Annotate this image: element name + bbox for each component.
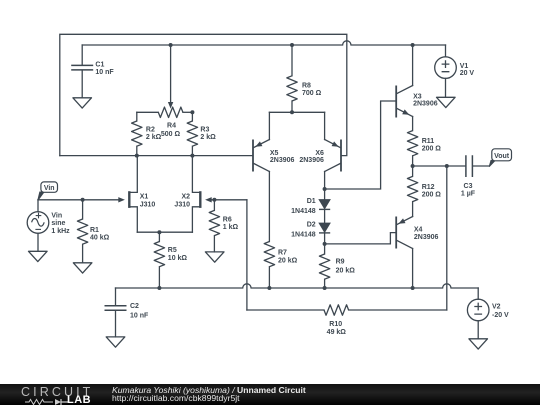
svg-text:1N4148: 1N4148	[291, 208, 316, 215]
node R9 bottom junction	[323, 286, 327, 290]
svg-text:R12: R12	[422, 184, 435, 191]
label X3	[413, 93, 438, 107]
wire X3 collector from rail	[412, 45, 414, 86]
resistor R4 potentiometer body	[137, 107, 193, 117]
svg-text:1 kHz: 1 kHz	[51, 228, 70, 235]
wire X6 collector down	[324, 172, 326, 190]
capacitor C2	[105, 306, 127, 337]
voltage source Vin sine	[27, 212, 49, 234]
svg-text:sine: sine	[51, 220, 65, 227]
wire bottom rail left end down to C2	[115, 288, 117, 305]
wire feedback loop left frame and top run (X6 base net)	[60, 34, 347, 155]
node R5 bottom junction	[157, 286, 161, 290]
wire feedback right column through hop	[446, 166, 448, 310]
wire V1 top	[445, 45, 447, 57]
node R8 bottom junction	[290, 110, 294, 114]
resistor R6	[209, 200, 219, 252]
resistor R1	[77, 200, 87, 263]
transistor X1 J310	[118, 156, 137, 233]
wire R10 left lead	[247, 309, 324, 311]
svg-text:R8: R8	[302, 83, 311, 90]
wire bottom rail right end to V2	[477, 288, 479, 299]
transistor X4 2N3906	[396, 217, 412, 249]
node X4 collector bottom junction	[411, 286, 415, 290]
svg-text:R7: R7	[278, 249, 287, 256]
svg-text:R1: R1	[90, 227, 99, 234]
svg-text:X1: X1	[140, 194, 149, 201]
node R5 top junction	[157, 230, 161, 234]
svg-text:X5: X5	[270, 150, 279, 157]
wire +20V rail from C1 to V1 with crossover hop	[82, 41, 445, 45]
svg-text:R9: R9	[336, 259, 345, 266]
label R12	[422, 184, 442, 198]
ground below V2	[469, 339, 488, 349]
node R2 bottom / X1 drain junction	[135, 154, 139, 158]
svg-text:R10: R10	[329, 321, 342, 328]
svg-text:R11: R11	[422, 138, 435, 145]
svg-text:Vin: Vin	[44, 185, 55, 192]
wire bottom rail with two crossover hops	[116, 284, 479, 288]
svg-text:D1: D1	[307, 198, 316, 205]
svg-text:X3: X3	[413, 93, 422, 100]
svg-text:R6: R6	[223, 217, 232, 224]
svg-text:200 Ω: 200 Ω	[422, 191, 442, 198]
node R7 bottom junction	[267, 286, 271, 290]
svg-text:20 kΩ: 20 kΩ	[336, 268, 356, 275]
transistor X2 J310	[192, 156, 211, 233]
svg-text:2N3906: 2N3906	[270, 157, 295, 164]
svg-text:2 kΩ: 2 kΩ	[146, 134, 162, 141]
ground below C2	[106, 337, 125, 347]
svg-text:R3: R3	[200, 127, 209, 134]
resistor R12	[407, 166, 417, 217]
label Vin source	[51, 212, 70, 235]
svg-text:X6: X6	[315, 150, 324, 157]
label X1	[140, 194, 156, 209]
label D1	[291, 198, 316, 215]
node D2 cathode / R9 / X4 base junction	[323, 242, 327, 246]
svg-text:J310: J310	[174, 202, 190, 209]
svg-text:Vout: Vout	[494, 153, 510, 160]
resistor R5	[154, 232, 164, 288]
svg-text:1 µF: 1 µF	[461, 191, 476, 198]
svg-text:10 kΩ: 10 kΩ	[168, 255, 188, 262]
voltage source V1	[435, 57, 457, 79]
resistor R8	[287, 45, 297, 112]
wire output node to C3	[413, 165, 466, 167]
label V1	[460, 63, 475, 77]
ground below R6	[205, 252, 224, 262]
label R8	[302, 83, 322, 97]
svg-text:20 kΩ: 20 kΩ	[278, 258, 298, 265]
node R11/R12/output junction	[411, 164, 415, 168]
label C3	[461, 183, 476, 198]
label R3	[200, 127, 216, 141]
label R2	[146, 127, 162, 141]
label V2	[492, 303, 509, 319]
label R5	[168, 247, 188, 262]
node X6 collector / D1 anode / X3 base junction	[323, 187, 327, 191]
label R10	[327, 321, 347, 336]
diode D2 1N4148	[319, 223, 330, 233]
resistor R9	[319, 244, 329, 288]
ground below Vin source	[29, 251, 48, 261]
label R1	[90, 227, 110, 242]
svg-text:C2: C2	[130, 303, 139, 310]
node R3 bottom / X2 drain junction	[190, 154, 194, 158]
svg-text:1N4148: 1N4148	[291, 232, 316, 239]
ground below R1	[73, 263, 92, 273]
wire between D1 and D2	[324, 209, 326, 223]
resistor R11	[407, 131, 417, 166]
label X4	[414, 226, 439, 241]
label C2	[130, 303, 149, 319]
label R9	[336, 259, 356, 275]
label X6	[299, 150, 324, 164]
wire V1 bottom	[445, 78, 447, 97]
wire D1 anode	[324, 189, 326, 200]
ground below V1	[437, 97, 456, 107]
node +20V rail / R4 wiper junction	[169, 43, 173, 47]
node +20V rail / X3 collector junction	[411, 43, 415, 47]
label C1 value	[95, 61, 114, 76]
transistor X5 2N3906	[253, 112, 269, 171]
CircuitLab logo	[21, 385, 113, 405]
wire X3 base route to D1 junction	[325, 101, 397, 189]
wire X4 collector down to bottom rail	[412, 249, 414, 289]
svg-text:40 kΩ: 40 kΩ	[90, 235, 110, 242]
wire Vin node	[38, 199, 119, 201]
wire X4 base jog to D2 junction	[325, 233, 397, 244]
svg-text:X4: X4	[414, 226, 423, 233]
wire X5 collector to R7	[268, 172, 270, 242]
svg-text:49 kΩ: 49 kΩ	[327, 329, 347, 336]
ground below C1	[73, 98, 92, 108]
wire feedback left column through hop	[246, 200, 248, 310]
svg-text:J310: J310	[140, 202, 156, 209]
svg-text:Vin: Vin	[51, 212, 62, 219]
svg-text:X2: X2	[181, 194, 190, 201]
svg-text:700 Ω: 700 Ω	[302, 90, 322, 97]
wire Vin source top	[37, 200, 39, 212]
resistor R2	[132, 112, 142, 155]
label D2	[291, 222, 316, 239]
wire diff pair emitter top bus	[269, 111, 324, 113]
node Vin / R1 junction	[81, 198, 85, 202]
svg-text:1 kΩ: 1 kΩ	[223, 224, 239, 231]
wire D2 cathode to base junction	[324, 233, 326, 244]
wire JFET source bus	[137, 231, 192, 233]
svg-text:2 kΩ: 2 kΩ	[200, 134, 216, 141]
wire base bus y=156 from frame to X5 base	[60, 155, 252, 157]
arrow R4 wiper	[168, 102, 173, 109]
svg-text:C3: C3	[464, 183, 473, 190]
svg-text:200 Ω: 200 Ω	[422, 145, 442, 152]
svg-text:D2: D2	[307, 222, 316, 229]
node +20V rail / R8 junction	[290, 43, 294, 47]
label R4	[161, 122, 181, 138]
resistor R10	[324, 305, 447, 315]
wire R4 wiper from +20V rail	[170, 45, 172, 103]
resistor R7	[264, 242, 274, 289]
capacitor C3	[466, 155, 489, 177]
wire X3 emitter to R11	[412, 117, 414, 131]
node X2 gate / R6 junction	[212, 198, 216, 202]
wire X2 gate to R6 and feedback column	[210, 199, 247, 201]
svg-text:-20 V: -20 V	[492, 312, 509, 319]
svg-text:R4: R4	[167, 122, 176, 129]
label R11	[422, 138, 442, 152]
wire V2 bottom	[477, 321, 479, 339]
svg-text:10 nF: 10 nF	[130, 312, 149, 319]
label R6	[223, 217, 239, 232]
transistor X6 2N3906	[325, 112, 341, 171]
capacitor C1	[71, 45, 93, 98]
label R7	[278, 249, 298, 264]
transistor X3 2N3906	[396, 86, 412, 118]
label X5	[270, 150, 295, 164]
svg-text:R2: R2	[146, 127, 155, 134]
svg-text:2N3906: 2N3906	[299, 157, 324, 164]
svg-text:20 V: 20 V	[460, 70, 475, 77]
svg-text:R5: R5	[168, 247, 177, 254]
label X2	[174, 194, 190, 209]
svg-text:C1: C1	[95, 61, 104, 68]
diode D1 1N4148	[319, 200, 330, 210]
svg-text:500 Ω: 500 Ω	[161, 131, 181, 138]
svg-text:V2: V2	[492, 303, 501, 310]
flag Vin	[38, 182, 58, 201]
node R4 right terminal / R3 top	[190, 110, 194, 114]
svg-text:10 nF: 10 nF	[95, 69, 114, 76]
flag Vout	[489, 149, 511, 167]
svg-text:2N3906: 2N3906	[414, 234, 439, 241]
node feedback takeoff junction	[445, 164, 449, 168]
resistor R3	[187, 112, 197, 155]
svg-text:2N3906: 2N3906	[413, 101, 438, 108]
voltage source V2	[467, 299, 489, 321]
wire Vin source bottom	[37, 233, 39, 251]
